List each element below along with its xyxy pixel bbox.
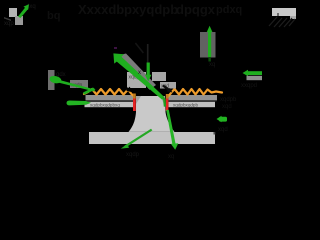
- arrow I (green blob arrow, head left, right-middle): [217, 116, 228, 122]
- black arrow to right zigzag bend: [163, 85, 173, 93]
- gray band behind arrow D: [118, 54, 156, 90]
- right gap edge orange cap: [166, 94, 169, 99]
- right bilayer: layer1 (upper gray): [169, 95, 218, 100]
- arrow E (green vertical, head down, into gap): [147, 44, 149, 63]
- svg-text:dpqgx: dpqgx: [176, 2, 216, 17]
- purple speck near arrow D head: [114, 47, 117, 49]
- svg-text:Xxxxdb: Xxxxdb: [78, 2, 124, 17]
- svg-text:xqdpbxqdpb: xqdpbxqdpb: [173, 102, 198, 107]
- black arrow on chip1 to left zigzag bend: [118, 82, 134, 93]
- label chip L1 (left of plate): [70, 80, 88, 88]
- legend tab: [290, 16, 296, 19]
- green sliver along right red bar: [163, 97, 166, 107]
- left gap edge orange cap: [133, 94, 136, 99]
- right bilayer: layer2 (lower light gray): [169, 102, 216, 107]
- svg-text:xqp: xqp: [4, 21, 14, 27]
- pillar top corner shading: [136, 96, 141, 104]
- arrow C (green horizontal, head left, into left bilayer): [67, 101, 92, 106]
- arrow J (green vertical, pointing up, on right block): [207, 26, 213, 62]
- svg-text:pxyqdpb: pxyqdpb: [124, 2, 178, 17]
- svg-text:x: x: [138, 70, 141, 76]
- chip2 (label chip above gap, middle): [152, 72, 166, 81]
- icon block B (top-left lower gray square): [15, 16, 23, 25]
- arrow D (long green diagonal, head upper-left): [113, 53, 164, 99]
- right bilayer: dark separator: [169, 100, 217, 101]
- arrow H (green horizontal, head left, right margin): [243, 70, 263, 76]
- legend inner dark mark: [277, 13, 279, 16]
- left bilayer: dark separator: [86, 100, 134, 101]
- svg-text:pdxq: pdxq: [216, 4, 242, 16]
- right zigzag (orange wavy coating): [169, 89, 223, 96]
- legend hatching: [269, 17, 295, 27]
- left bilayer: layer2 (lower light gray): [85, 102, 134, 107]
- arrow A (green, icon to upper-right): [18, 4, 29, 18]
- arrow G (green thin, head bottom, along pillar right): [166, 110, 178, 150]
- svg-text:xqdp: xqdp: [126, 152, 140, 158]
- support block right (gray): [200, 32, 216, 58]
- bottom plate notch: [214, 132, 216, 135]
- svg-text:xq: xq: [168, 154, 174, 160]
- left bilayer: layer1 (upper gray): [86, 95, 134, 100]
- arrow F (green thin, head lower-left, across plate): [121, 129, 153, 149]
- svg-text:xq: xq: [209, 62, 215, 68]
- arrow B (green, head left, over chip L1): [50, 76, 96, 95]
- svg-text:xxqpd: xxqpd: [241, 83, 257, 89]
- small gray bar under arrow H: [247, 76, 263, 80]
- svg-text:xqd: xqd: [218, 127, 228, 133]
- svg-text:bq: bq: [47, 10, 60, 22]
- pillar (central pushing rod): [129, 96, 175, 132]
- left red bar: [133, 99, 136, 112]
- icon block A (top-left gray square): [9, 8, 17, 17]
- svg-text:xqd: xqd: [222, 104, 232, 110]
- legend rect (top-right): [272, 8, 296, 16]
- svg-text:xqdpbxqdpbxq: xqdpbxqdpbxq: [90, 102, 120, 107]
- svg-text:xqdpb: xqdpb: [220, 97, 237, 103]
- right red bar: [166, 99, 169, 112]
- icon dark diagonal mark: [4, 17, 11, 21]
- bottom plate (substrate): [89, 132, 215, 144]
- support bar left (gray vertical): [48, 70, 55, 90]
- chip1 (label chip above gap, left): [127, 72, 146, 88]
- title text (very dark, nearly invisible): [47, 2, 242, 22]
- chip3 (label chip above gap, right): [160, 82, 176, 89]
- black faint arrow near D head: [135, 43, 144, 54]
- left zigzag (orange wavy coating): [84, 89, 133, 96]
